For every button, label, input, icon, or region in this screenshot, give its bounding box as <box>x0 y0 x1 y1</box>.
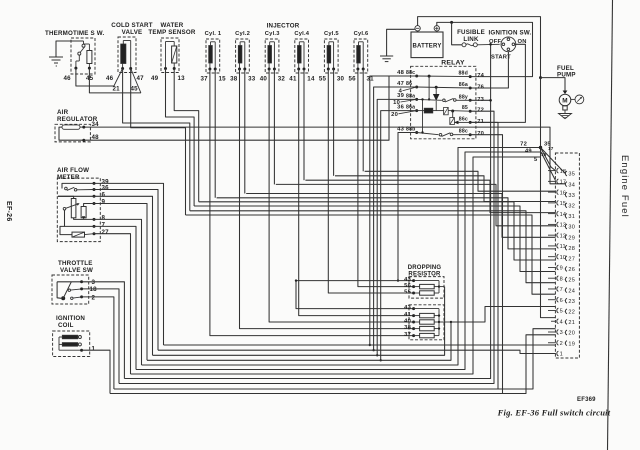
junction dot 43 branch <box>295 279 297 281</box>
dropping resistor upper element 1 <box>414 284 439 288</box>
dropping resistor lower element 4 <box>414 333 439 337</box>
connector box (35-pin) <box>555 153 579 358</box>
air flow meter potentiometer track <box>71 199 76 218</box>
wire 43 feed upper dropping resistor <box>296 280 414 282</box>
label 40 <box>404 318 411 324</box>
label 30 <box>337 76 345 83</box>
svg-text:7: 7 <box>560 287 563 293</box>
relay right terminal 88d dot <box>469 75 472 78</box>
battery box <box>411 32 443 58</box>
svg-text:32: 32 <box>568 204 575 210</box>
label 76 <box>477 85 484 91</box>
svg-text:LINK: LINK <box>463 36 479 43</box>
svg-text:4: 4 <box>560 319 563 325</box>
junction dot fuel pump feed <box>539 76 542 79</box>
svg-text:13: 13 <box>178 75 186 82</box>
relay right terminal 86a dot <box>469 87 472 90</box>
wire dropping resistor lower bus <box>414 309 453 336</box>
svg-text:15: 15 <box>219 76 227 83</box>
relay contact 86c row with arrow <box>450 111 470 125</box>
svg-text:IGNITION: IGNITION <box>56 315 85 322</box>
label BATTERY <box>412 44 441 50</box>
svg-text:1: 1 <box>560 352 563 358</box>
wire water temp internals <box>166 42 175 69</box>
pin 18 connector <box>548 168 566 175</box>
relay box <box>411 66 476 139</box>
label 3 <box>92 279 96 286</box>
pin 10 connector <box>548 254 566 261</box>
junction dot fusible branch <box>450 21 453 24</box>
label 36 <box>397 104 404 110</box>
label 37 <box>201 76 209 83</box>
label 41 <box>289 76 297 83</box>
wire 55: injector Cyl.5 to dropping resistor <box>328 69 413 293</box>
wire 8: air flow meter down to bottom bus <box>94 219 142 365</box>
label 88c <box>406 70 415 76</box>
wire diagonal cold start 47 to wire 45 <box>131 69 141 93</box>
junction dot relay 86c branch <box>428 75 431 78</box>
wire relay internal branch <box>428 76 430 101</box>
label 88a <box>406 93 415 99</box>
pin 35 connector <box>564 171 575 178</box>
injector Cyl.1 solenoid winding <box>209 46 213 64</box>
wire 33: injector Cyl.2 down to bus <box>244 69 246 194</box>
ignition coil primary winding <box>62 335 81 339</box>
svg-text:86a: 86a <box>459 82 468 88</box>
pin 14 connector <box>548 211 566 218</box>
svg-text:33: 33 <box>568 193 575 199</box>
terminal dot 15 injector Cyl.1 <box>214 68 217 71</box>
svg-text:10: 10 <box>393 100 400 106</box>
svg-text:3: 3 <box>92 279 96 286</box>
injector Cyl.6 box <box>354 39 368 73</box>
label 38 <box>230 76 238 83</box>
pin 27 connector <box>564 256 575 263</box>
wire injector Cyl.3 internals <box>269 42 274 69</box>
injector Cyl.5 box <box>324 39 338 73</box>
svg-text:6: 6 <box>102 192 106 199</box>
pin 34 connector <box>564 182 575 189</box>
relay coil winding <box>417 108 445 113</box>
svg-text:4: 4 <box>399 89 403 95</box>
ignition switch rotary body <box>501 37 516 52</box>
svg-text:7: 7 <box>102 222 106 229</box>
svg-text:Cyl.3: Cyl.3 <box>265 31 280 37</box>
terminal dot 47 cold start <box>129 67 132 70</box>
terminal dot 8 air flow meter <box>93 218 96 221</box>
label THROTTLE VALVE SW <box>58 260 93 274</box>
label DROPPING RESISTOR <box>408 265 442 278</box>
label 35 <box>544 142 551 148</box>
terminal dot 39 air flow meter <box>93 182 96 185</box>
svg-text:8: 8 <box>560 276 563 282</box>
wire fusible link to ignition switch <box>477 43 499 46</box>
wire 37: injector Cyl.1 to dropping resistor <box>210 69 414 336</box>
label IGNITION SW <box>489 30 532 37</box>
ignition coil secondary winding <box>62 343 81 347</box>
wire 18: throttle to bottom bus <box>82 289 119 384</box>
label 49 (node) <box>525 149 532 155</box>
label 8 <box>102 215 106 222</box>
label 39 <box>102 179 110 186</box>
wire 34: air regulator to pin 34 <box>84 127 566 184</box>
terminal dot 32 injector Cyl.3 <box>273 68 276 71</box>
wire 72: relay 85 row to throttle 18 via bottom bus <box>119 111 494 383</box>
wire ignition switch START to relay 86a <box>470 52 508 88</box>
svg-text:RELAY: RELAY <box>441 60 465 67</box>
injector Cyl.3 box <box>265 39 279 73</box>
injector Cyl.6 solenoid winding <box>357 46 361 64</box>
terminal dot 43 dropping resistor lower <box>412 307 415 310</box>
wire dropping resistor lower bus to pin 6 <box>451 307 556 323</box>
label 55 <box>404 289 411 295</box>
label 13 <box>178 75 186 82</box>
air flow meter temp compensation resistor <box>72 232 85 237</box>
wire bus line 345 to pin 2 <box>164 344 556 346</box>
wire 71: relay 86c row to throttle 2 via bottom bus <box>114 122 498 389</box>
label 39 <box>397 93 404 99</box>
wire injector Cyl.1 internals <box>210 42 215 69</box>
terminal dot 41 dropping resistor lower <box>412 314 415 317</box>
svg-text:25: 25 <box>568 278 575 284</box>
label WATER TEMP SENSOR <box>148 22 195 36</box>
terminal dot 7 air flow meter <box>93 225 96 228</box>
wire ignition switch OFF feed down <box>489 43 492 102</box>
svg-text:2: 2 <box>92 295 96 302</box>
terminal dot 48 <box>82 139 85 142</box>
svg-text:30: 30 <box>568 225 575 231</box>
svg-text:2: 2 <box>560 341 563 347</box>
wire bus line 393.5 branch to pin 3 <box>503 335 556 394</box>
relay left terminal 88a dot <box>415 98 418 101</box>
wire 30: injector Cyl.5 down to bus <box>333 69 335 176</box>
injector Cyl.2 solenoid winding <box>238 46 242 64</box>
svg-text:88c: 88c <box>459 129 468 135</box>
svg-text:47: 47 <box>137 75 145 82</box>
wire fan to pin 35 <box>541 148 566 174</box>
page divider line (right margin) <box>608 0 613 450</box>
svg-text:26: 26 <box>568 267 575 273</box>
terminal dot 34 <box>82 126 85 129</box>
svg-text:1: 1 <box>92 346 96 353</box>
wire 13: down, right, down to bus <box>174 69 199 202</box>
svg-text:34: 34 <box>568 182 575 188</box>
wire thermotime to ground <box>56 41 84 57</box>
relay left terminal 88b dot <box>415 131 418 134</box>
wire 49: down, right, down to bus <box>166 69 195 207</box>
injector Cyl.4 box <box>295 39 309 73</box>
label 2 <box>92 295 96 302</box>
throttle valve switch box <box>52 275 89 304</box>
label 56 <box>349 76 357 83</box>
air flow meter resistor 2 <box>81 207 86 218</box>
svg-text:THROTTLE: THROTTLE <box>58 260 93 267</box>
svg-text:86c: 86c <box>459 116 468 122</box>
svg-text:AIR FLOW: AIR FLOW <box>57 167 89 174</box>
svg-text:EF-26: EF-26 <box>5 201 12 222</box>
label 86a <box>459 82 468 88</box>
wire relay row 86-86a <box>417 87 471 88</box>
svg-text:IGNITION SW.: IGNITION SW. <box>489 30 532 37</box>
wire 48: air regulator to relay 88c <box>84 76 417 140</box>
wire relay 47 row down to bottom bus <box>372 87 416 351</box>
dropping resistor box upper <box>409 277 444 299</box>
svg-text:88d: 88d <box>458 71 468 77</box>
relay coil feed arrow <box>433 87 440 110</box>
label 72 <box>520 142 527 148</box>
svg-text:BATTERY: BATTERY <box>412 44 441 50</box>
svg-text:45: 45 <box>131 86 139 93</box>
junction dot relay 85 row <box>451 110 454 113</box>
label COLD START VALVE <box>111 22 152 36</box>
svg-text:Cyl.4: Cyl.4 <box>294 31 309 37</box>
label 70 <box>477 131 484 137</box>
label 6 <box>102 192 106 199</box>
wire throttle switch internals <box>57 282 82 299</box>
pin 24 connector <box>564 288 575 295</box>
label 20 with leader <box>391 111 417 118</box>
label 48 <box>397 70 404 76</box>
pin 2 connector <box>548 340 563 347</box>
terminal dot 56 injector Cyl.6 <box>356 68 359 71</box>
terminal dot 46 cold start <box>121 67 124 70</box>
wire relay 36 row down to bottom bus <box>380 111 417 362</box>
throttle valve switch contacts <box>61 282 73 300</box>
svg-text:33: 33 <box>248 76 256 83</box>
svg-text:FUSIBLE: FUSIBLE <box>457 29 485 36</box>
junction dot 43 join <box>397 279 399 281</box>
terminal dot 37 dropping resistor lower <box>412 334 415 337</box>
pin 16 connector <box>548 190 566 197</box>
label 46 (cold start) <box>106 75 114 82</box>
relay right terminal 86c dot <box>469 121 472 124</box>
svg-text:WATER: WATER <box>161 22 184 29</box>
label node 45 <box>131 86 139 93</box>
svg-text:38: 38 <box>404 325 411 331</box>
relay right terminal 88y dot <box>469 99 472 102</box>
label 10 with leader <box>393 99 417 106</box>
ground symbol (battery) <box>380 56 393 62</box>
svg-text:9: 9 <box>560 266 563 272</box>
svg-text:32: 32 <box>278 76 286 83</box>
wire 6: air flow meter down to bottom bus <box>94 196 153 355</box>
svg-text:88c: 88c <box>406 70 415 76</box>
wire 43: relay 88b to dropping resistors <box>398 133 417 281</box>
svg-text:M: M <box>562 98 568 105</box>
wire 45 bus to pin 7 <box>186 215 556 294</box>
wire air regulator internals <box>59 127 84 140</box>
wire injector Cyl.5 internals <box>328 42 333 69</box>
pin 30 connector <box>564 224 575 231</box>
svg-text:Cyl.6: Cyl.6 <box>354 31 369 37</box>
svg-text:85: 85 <box>462 105 468 111</box>
pin 8 connector <box>548 276 563 283</box>
wire 7: air flow meter down to bottom bus <box>94 226 136 369</box>
label 88b <box>406 127 416 133</box>
fuel pump motor M <box>559 94 571 106</box>
terminal dot 41 injector Cyl.4 <box>297 68 300 71</box>
wire relay 48 row down to bottom bus <box>369 76 417 346</box>
terminal dot 13 <box>173 67 176 70</box>
air regulator heater resistor <box>62 125 80 129</box>
label 47 <box>397 81 404 87</box>
wire 31: Cyl.6 bus to pin 16 <box>365 171 556 191</box>
label 43 <box>397 126 404 132</box>
wire bus line 369.5 riser to node 49 / pin 17 <box>136 152 556 370</box>
svg-text:24: 24 <box>568 288 575 294</box>
wire to fuel pump <box>541 78 566 91</box>
wire bus line 355.3 riser to dropping resistor upper bus <box>153 287 445 356</box>
terminal dot 9 air flow meter <box>93 202 96 205</box>
label 41 <box>404 312 411 318</box>
pin 19 connector <box>564 341 575 348</box>
fusible link element <box>462 43 477 47</box>
wire thermotime internals <box>76 41 90 68</box>
wire relay 88b vertical <box>421 98 423 133</box>
pin 1 connector <box>548 351 563 358</box>
label 43 <box>404 305 411 311</box>
terminal dot 1 ignition coil <box>80 349 83 352</box>
dropping resistor lower element 2 <box>414 320 439 324</box>
svg-text:COLD START: COLD START <box>111 22 152 29</box>
label 37 <box>404 332 411 338</box>
svg-text:INJECTOR: INJECTOR <box>267 23 300 30</box>
pin 15 connector <box>548 200 566 207</box>
wire bus line 350.2 to pin 1 <box>158 350 556 353</box>
terminal dot 45 thermotime <box>88 67 91 70</box>
terminal dot 40 injector Cyl.3 <box>268 68 271 71</box>
svg-text:55: 55 <box>404 289 411 295</box>
label 74 <box>477 73 484 79</box>
label RELAY <box>441 60 465 67</box>
pin 29 connector <box>564 235 575 242</box>
svg-text:9: 9 <box>102 199 106 206</box>
label 7 <box>102 222 106 229</box>
svg-text:74: 74 <box>477 73 484 79</box>
label 55 <box>319 76 327 83</box>
air regulator box <box>55 124 90 142</box>
svg-text:76: 76 <box>477 85 484 91</box>
dropping resistor box lower <box>409 305 444 340</box>
air flow meter box <box>57 178 100 242</box>
wire 32: Cyl.3 bus to pin 13 <box>276 184 556 225</box>
injector Cyl.5 solenoid winding <box>327 46 331 64</box>
svg-text:Engine Fuel: Engine Fuel <box>619 155 630 218</box>
wire 46 thermotime down-right to node 21 <box>76 68 114 86</box>
pin 4 connector <box>551 319 563 326</box>
pin 25 connector <box>564 277 575 284</box>
thermotime resistor <box>87 51 92 64</box>
pin 33 connector <box>564 192 575 199</box>
terminal dot 27 air flow meter <box>93 232 96 235</box>
junction dot relay 86 branch <box>435 86 438 89</box>
terminal dot 43 dropping resistor upper <box>412 279 415 282</box>
label 71 <box>477 119 484 125</box>
wire bus line 365 riser to node 72 <box>142 148 541 366</box>
label AIR FLOW METER <box>57 167 89 181</box>
svg-text:Cyl. 1: Cyl. 1 <box>205 31 222 37</box>
terminal dot 6 air flow meter <box>93 195 96 198</box>
label 14 <box>307 76 315 83</box>
svg-text:88b: 88b <box>406 127 416 133</box>
svg-text:41: 41 <box>289 76 297 83</box>
relay right terminal 85 dot <box>469 110 472 113</box>
label 36 <box>102 185 110 192</box>
terminal dot 38 dropping resistor lower <box>412 327 415 330</box>
svg-text:49: 49 <box>525 149 532 155</box>
label 18 <box>90 286 98 293</box>
svg-text:19: 19 <box>568 341 575 347</box>
label AIR REGULATOR <box>57 109 98 123</box>
terminal dot 38 injector Cyl.2 <box>238 68 241 71</box>
pin 20 connector <box>564 330 575 337</box>
label 43 <box>404 277 411 283</box>
wire injector Cyl.2 internals <box>240 42 245 69</box>
terminal dot 49 <box>164 67 167 70</box>
svg-text:48: 48 <box>397 70 404 76</box>
pin 28 connector <box>564 245 575 252</box>
label 4 with leader <box>399 87 417 95</box>
svg-text:TEMP SENSOR: TEMP SENSOR <box>148 29 195 36</box>
svg-text:18: 18 <box>541 152 547 157</box>
svg-text:22: 22 <box>568 310 575 316</box>
svg-text:38: 38 <box>230 76 238 83</box>
wire ignition coil internals <box>59 337 82 350</box>
svg-text:20: 20 <box>391 112 398 118</box>
wire 36: air flow meter down to bottom bus <box>94 190 158 351</box>
svg-text:46: 46 <box>64 75 72 82</box>
terminal dot 33 injector Cyl.2 <box>243 68 246 71</box>
label 1 <box>92 346 96 353</box>
svg-text:40: 40 <box>260 76 268 83</box>
wire battery positive top feed <box>437 22 533 76</box>
svg-text:56: 56 <box>404 283 411 289</box>
svg-text:43: 43 <box>404 305 411 311</box>
wire 3: throttle to bottom bus <box>82 282 125 379</box>
terminal dot 55 injector Cyl.5 <box>327 68 330 71</box>
label Cyl.5 <box>324 31 339 37</box>
wire bus line 389 branch to pin 4 <box>498 329 556 389</box>
label 73 <box>477 97 484 103</box>
dropping resistor upper element 2 <box>414 291 439 295</box>
svg-text:86a: 86a <box>406 105 415 111</box>
svg-text:21: 21 <box>568 320 575 326</box>
relay resistor <box>444 107 471 114</box>
pin 13 connector <box>548 222 566 229</box>
label ON <box>518 39 527 45</box>
terminal dot 14 injector Cyl.4 <box>303 68 306 71</box>
label 72 <box>477 108 484 114</box>
wire air flow meter resistor to 27 <box>60 226 94 234</box>
wire dropping resistor upper bus <box>414 281 445 293</box>
svg-text:5: 5 <box>560 309 563 315</box>
svg-text:23: 23 <box>568 299 575 305</box>
svg-text:Cyl.2: Cyl.2 <box>235 31 250 37</box>
wire 21 bus to pin 8 <box>190 211 556 283</box>
label 15 <box>219 76 227 83</box>
wire 31: injector Cyl.6 down to bus <box>362 69 364 171</box>
ground symbol (fuel pump) <box>559 114 572 119</box>
wire 70: relay 88c row to ignition coil via bottom bus <box>110 135 503 394</box>
svg-text:6: 6 <box>560 298 563 304</box>
label 88y <box>459 94 468 100</box>
pin 7 connector <box>548 287 563 294</box>
wire 9: air flow meter down to bottom bus <box>94 204 147 361</box>
wire 15: injector Cyl.1 down to bus <box>214 69 216 198</box>
rotated margin text EF-26 (left) <box>5 201 12 222</box>
svg-text:Fig. EF-36 Full switch circui: Fig. EF-36 Full switch circuit <box>497 408 611 418</box>
wire 1: ignition coil to bottom bus <box>82 350 110 393</box>
